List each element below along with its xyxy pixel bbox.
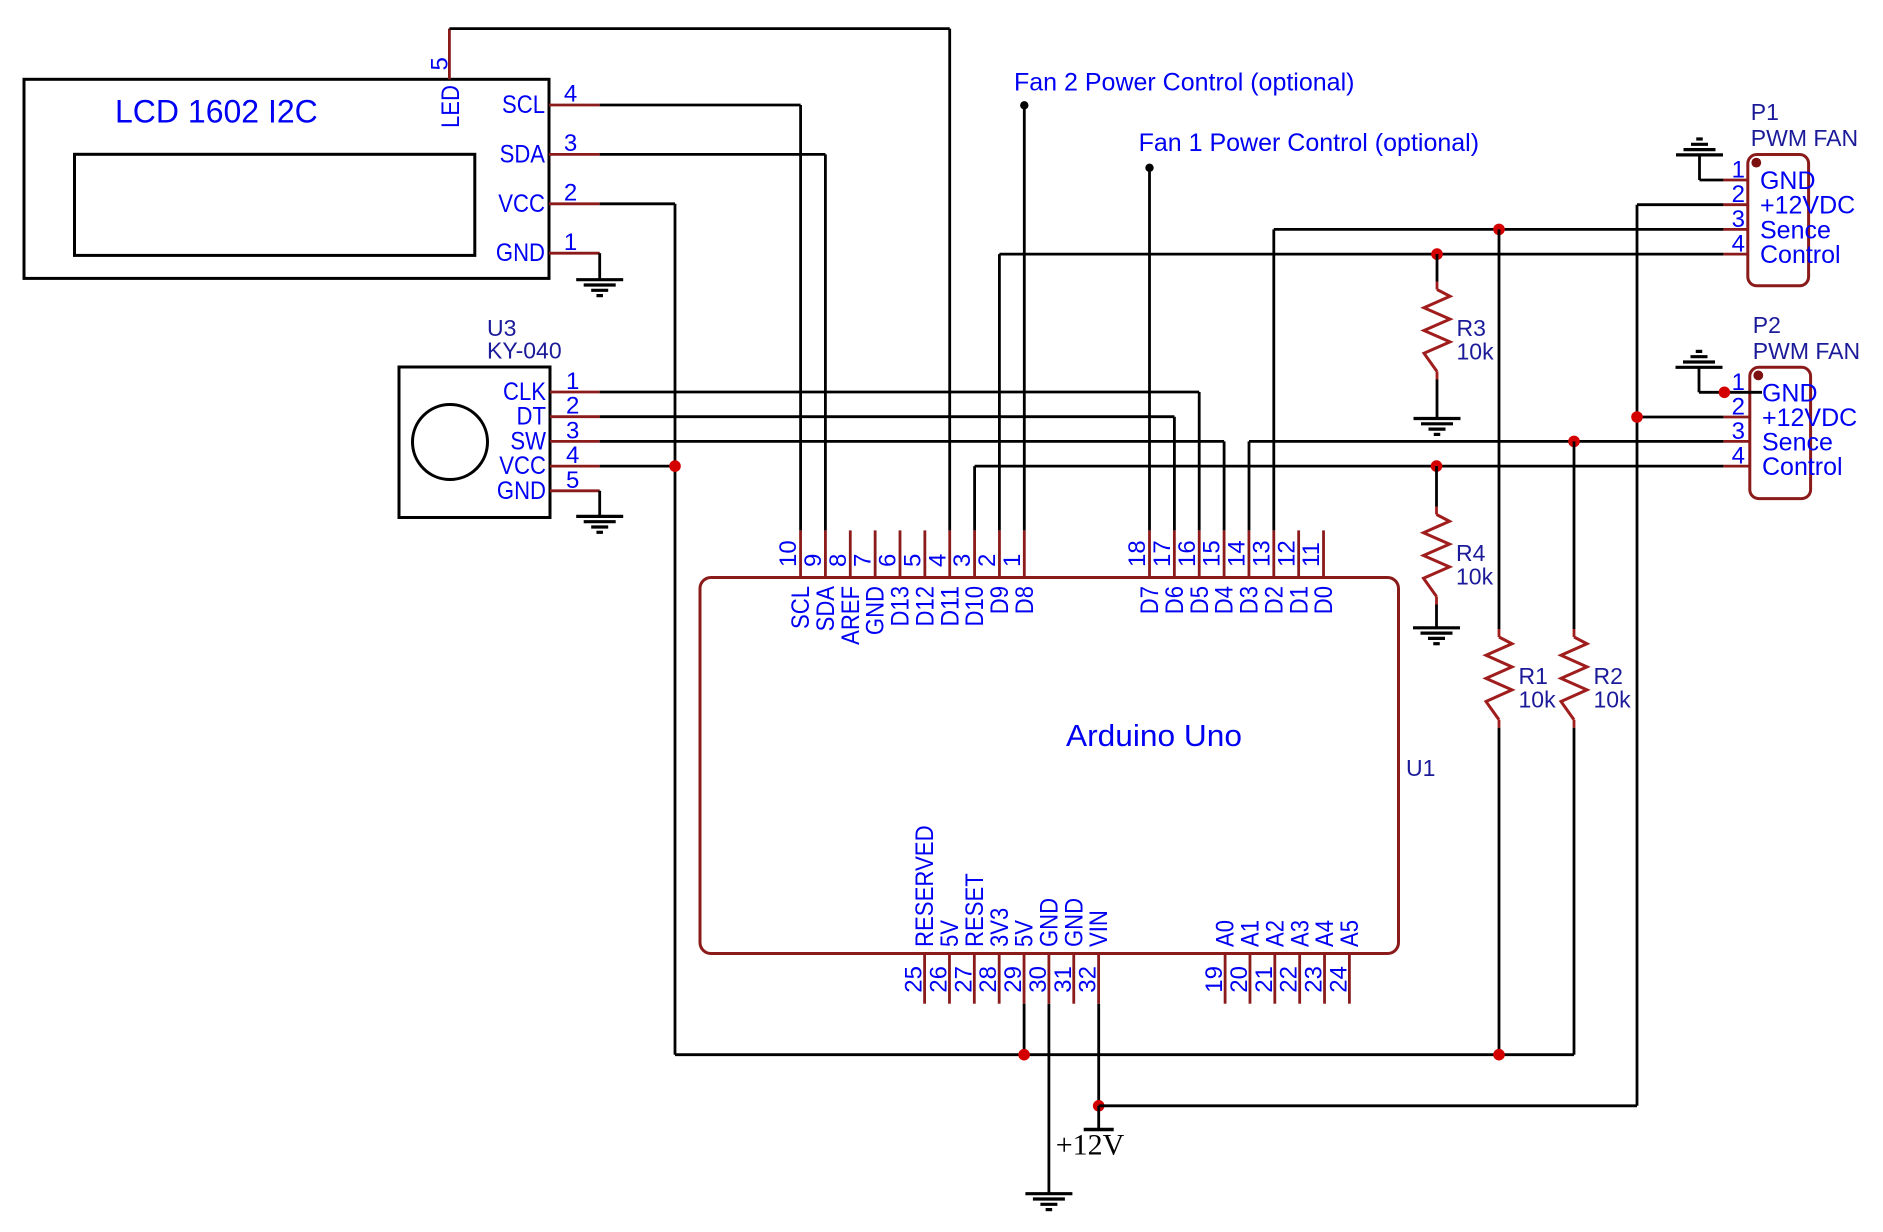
svg-text:SDA: SDA (500, 140, 546, 168)
svg-text:3: 3 (949, 554, 976, 567)
svg-text:GND: GND (1060, 898, 1088, 947)
svg-text:25: 25 (901, 966, 928, 993)
svg-text:3: 3 (1732, 206, 1745, 233)
svg-text:RESET: RESET (961, 873, 989, 947)
svg-text:D13: D13 (887, 586, 915, 627)
svg-text:2: 2 (564, 179, 577, 206)
svg-text:1: 1 (566, 368, 579, 395)
svg-text:A0: A0 (1212, 920, 1240, 947)
svg-text:LED: LED (437, 85, 465, 128)
svg-text:5: 5 (899, 554, 926, 567)
svg-text:Control: Control (1762, 453, 1843, 481)
svg-text:11: 11 (1298, 542, 1325, 567)
svg-text:D0: D0 (1310, 586, 1338, 614)
svg-text:SDA: SDA (812, 586, 840, 632)
svg-text:17: 17 (1149, 540, 1176, 567)
svg-text:R4: R4 (1456, 540, 1486, 566)
svg-text:D10: D10 (961, 586, 989, 627)
svg-text:LCD 1602 I2C: LCD 1602 I2C (115, 93, 318, 129)
svg-text:PWM FAN: PWM FAN (1753, 338, 1860, 364)
svg-text:2: 2 (1732, 394, 1745, 421)
svg-text:+12V: +12V (1056, 1129, 1125, 1162)
svg-text:D8: D8 (1011, 586, 1039, 614)
svg-text:1: 1 (1732, 157, 1745, 184)
svg-text:2: 2 (974, 554, 1001, 567)
svg-text:1: 1 (999, 554, 1026, 567)
svg-text:4: 4 (564, 81, 577, 108)
svg-text:5V: 5V (936, 920, 964, 947)
svg-text:Fan 2 Power Control (optional): Fan 2 Power Control (optional) (1014, 68, 1354, 96)
svg-text:4: 4 (1732, 231, 1745, 258)
svg-text:4: 4 (1732, 443, 1745, 470)
svg-text:A1: A1 (1237, 920, 1265, 947)
svg-text:16: 16 (1174, 540, 1201, 567)
svg-text:18: 18 (1124, 540, 1151, 567)
svg-text:A3: A3 (1286, 920, 1314, 947)
svg-text:2: 2 (566, 393, 579, 420)
svg-text:SCL: SCL (787, 586, 815, 629)
svg-text:A4: A4 (1311, 920, 1339, 947)
svg-text:20: 20 (1226, 966, 1253, 993)
svg-text:D2: D2 (1260, 586, 1288, 614)
svg-text:13: 13 (1248, 540, 1275, 567)
svg-text:10k: 10k (1456, 564, 1494, 590)
svg-text:8: 8 (825, 554, 852, 567)
svg-text:D12: D12 (911, 586, 939, 627)
svg-text:6: 6 (875, 554, 902, 567)
svg-text:PWM FAN: PWM FAN (1751, 125, 1858, 151)
svg-text:9: 9 (800, 554, 827, 567)
svg-text:GND: GND (496, 239, 545, 267)
svg-text:28: 28 (975, 966, 1002, 993)
svg-text:1: 1 (564, 229, 577, 256)
svg-text:D9: D9 (986, 586, 1014, 614)
svg-text:7: 7 (850, 554, 877, 567)
svg-text:Control: Control (1760, 241, 1841, 269)
svg-text:VCC: VCC (498, 190, 545, 218)
svg-text:3: 3 (1732, 418, 1745, 445)
svg-text:GND: GND (1036, 898, 1064, 947)
svg-text:31: 31 (1050, 966, 1077, 993)
svg-text:30: 30 (1025, 966, 1052, 993)
svg-text:Fan 1 Power Control (optional): Fan 1 Power Control (optional) (1139, 129, 1479, 157)
svg-text:5: 5 (426, 57, 453, 70)
svg-text:19: 19 (1201, 966, 1228, 993)
svg-text:29: 29 (1000, 966, 1027, 993)
svg-text:14: 14 (1224, 540, 1251, 567)
svg-text:27: 27 (950, 966, 977, 993)
svg-text:3: 3 (566, 417, 579, 444)
svg-text:10k: 10k (1519, 686, 1557, 712)
svg-text:4: 4 (924, 554, 951, 567)
svg-text:3: 3 (564, 130, 577, 157)
svg-text:P1: P1 (1751, 99, 1779, 125)
svg-text:P2: P2 (1753, 312, 1781, 338)
svg-text:GND: GND (862, 586, 890, 635)
svg-text:2: 2 (1732, 181, 1745, 208)
svg-text:10k: 10k (1457, 339, 1495, 365)
svg-text:A2: A2 (1261, 920, 1289, 947)
svg-text:5: 5 (566, 467, 579, 494)
svg-text:U1: U1 (1406, 755, 1435, 781)
svg-text:Arduino Uno: Arduino Uno (1066, 718, 1242, 753)
svg-text:24: 24 (1325, 966, 1352, 993)
svg-text:32: 32 (1075, 966, 1102, 993)
svg-text:KY-040: KY-040 (487, 337, 562, 363)
svg-text:R1: R1 (1519, 663, 1548, 689)
svg-text:R3: R3 (1457, 315, 1486, 341)
svg-text:10: 10 (775, 540, 802, 567)
svg-text:AREF: AREF (837, 586, 865, 645)
svg-text:SCL: SCL (502, 91, 545, 119)
svg-text:12: 12 (1273, 540, 1300, 567)
svg-text:D6: D6 (1161, 586, 1189, 614)
svg-text:10k: 10k (1594, 686, 1632, 712)
svg-text:D1: D1 (1285, 586, 1313, 614)
svg-text:D3: D3 (1236, 586, 1264, 614)
svg-text:D11: D11 (936, 586, 964, 627)
svg-text:D4: D4 (1211, 586, 1239, 614)
svg-text:21: 21 (1251, 966, 1278, 993)
svg-text:26: 26 (925, 966, 952, 993)
svg-text:D5: D5 (1186, 586, 1214, 614)
svg-text:A5: A5 (1336, 920, 1364, 947)
svg-text:GND: GND (497, 477, 546, 505)
svg-text:D7: D7 (1136, 586, 1164, 614)
svg-text:VIN: VIN (1085, 910, 1113, 947)
svg-text:22: 22 (1276, 966, 1303, 993)
svg-text:5V: 5V (1011, 920, 1039, 947)
svg-text:R2: R2 (1594, 663, 1623, 689)
svg-text:3V3: 3V3 (986, 908, 1014, 947)
svg-text:RESERVED: RESERVED (911, 825, 939, 947)
svg-text:15: 15 (1199, 540, 1226, 567)
svg-text:4: 4 (566, 442, 579, 469)
svg-text:23: 23 (1301, 966, 1328, 993)
